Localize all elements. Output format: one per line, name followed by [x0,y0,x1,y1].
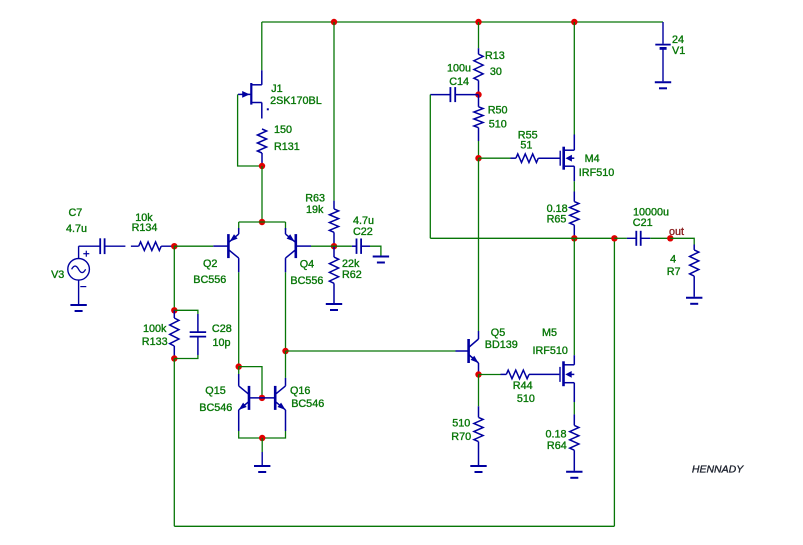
svg-text:R50: R50 [488,105,508,117]
svg-text:R65: R65 [547,214,567,226]
svg-text:R131: R131 [274,141,300,153]
svg-text:4: 4 [670,254,676,266]
svg-text:M4: M4 [585,153,600,165]
svg-text:M5: M5 [542,327,557,339]
svg-text:HENNADY: HENNADY [692,464,744,476]
svg-text:Q5: Q5 [491,327,505,339]
svg-text:R63: R63 [305,193,325,205]
svg-text:R62: R62 [342,269,362,281]
svg-text:BC556: BC556 [290,275,323,287]
svg-text:Q2: Q2 [203,258,217,270]
svg-text:R133: R133 [142,336,168,348]
svg-text:R44: R44 [513,380,533,392]
svg-text:Q4: Q4 [300,259,314,271]
svg-text:IRF510: IRF510 [579,167,614,179]
svg-text:510: 510 [489,119,507,131]
svg-text:out: out [669,226,684,238]
svg-text:0.18: 0.18 [546,429,567,441]
svg-text:4.7u: 4.7u [66,223,87,235]
svg-text:C22: C22 [353,226,373,238]
svg-text:V1: V1 [672,45,685,57]
svg-text:C14: C14 [449,76,469,88]
svg-text:150: 150 [274,124,292,136]
svg-text:510: 510 [517,393,535,405]
svg-text:100u: 100u [447,63,471,75]
svg-text:C28: C28 [212,323,232,335]
svg-text:Q16: Q16 [290,385,310,397]
svg-text:C7: C7 [69,207,83,219]
svg-text:V3: V3 [51,269,64,281]
svg-text:BC556: BC556 [193,274,226,286]
svg-text:51: 51 [520,140,532,152]
svg-text:C21: C21 [633,217,653,229]
svg-text:R134: R134 [132,222,158,234]
svg-text:10p: 10p [213,337,231,349]
svg-text:BC546: BC546 [291,398,324,410]
svg-text:30: 30 [490,66,502,78]
svg-text:R70: R70 [451,431,471,443]
svg-text:J1: J1 [271,83,282,95]
svg-text:2SK170BL: 2SK170BL [270,95,322,107]
svg-text:510: 510 [452,418,470,430]
svg-text:R64: R64 [547,440,567,452]
svg-text:BC546: BC546 [199,402,232,414]
svg-text:R7: R7 [667,266,681,278]
svg-text:19k: 19k [306,204,324,216]
svg-text:BD139: BD139 [485,339,518,351]
svg-text:IRF510: IRF510 [533,345,568,357]
svg-text:Q15: Q15 [205,385,225,397]
svg-text:R13: R13 [485,50,505,62]
svg-text:100k: 100k [143,323,167,335]
